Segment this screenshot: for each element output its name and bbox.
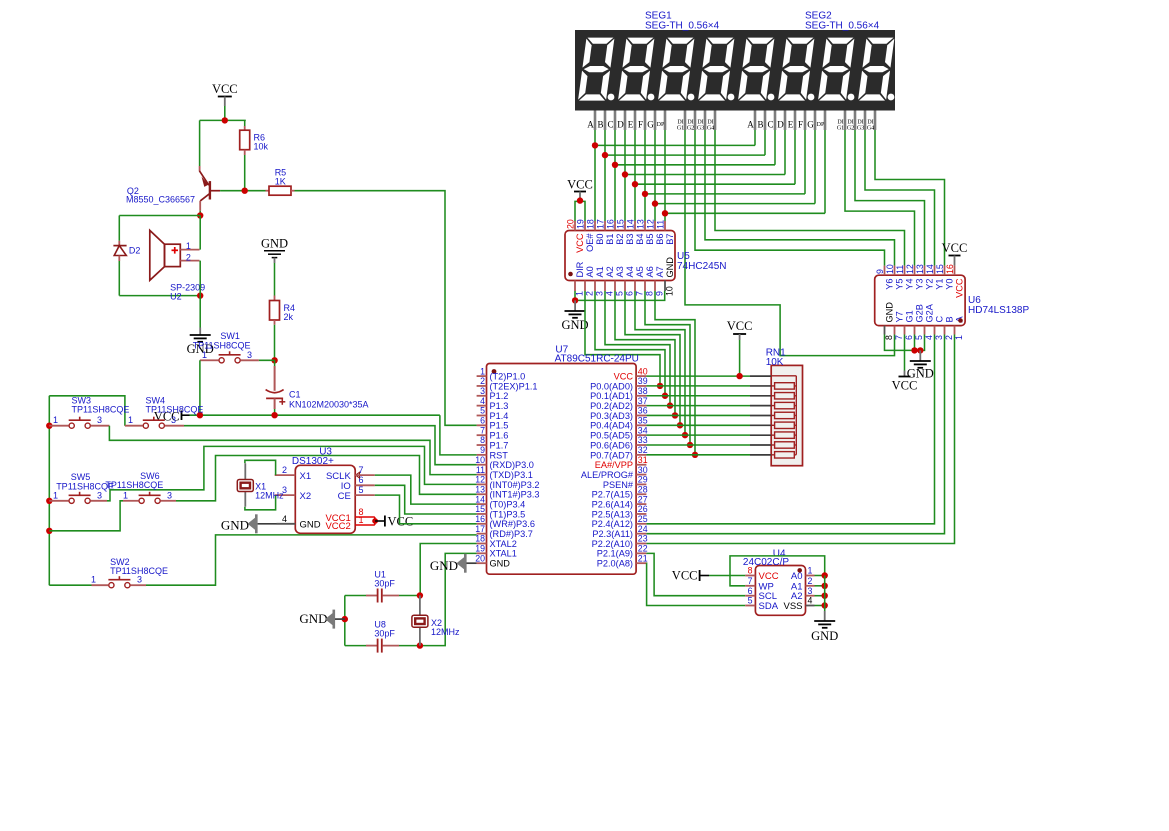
svg-text:CE: CE bbox=[338, 491, 351, 502]
C1 polarity plus bbox=[279, 401, 285, 403]
svg-text:P1.6: P1.6 bbox=[490, 431, 509, 441]
svg-text:(WR#)P3.6: (WR#)P3.6 bbox=[490, 519, 535, 529]
wire SEG1 DIG2 to U6 Y6 bbox=[695, 130, 885, 266]
svg-text:Y2: Y2 bbox=[924, 279, 934, 290]
wire Q2 collector node bbox=[199, 211, 201, 216]
svg-text:GND: GND bbox=[221, 518, 249, 533]
display pin stubs bbox=[594, 111, 597, 131]
svg-text:GND: GND bbox=[299, 611, 327, 626]
svg-text:16: 16 bbox=[475, 514, 485, 524]
svg-text:A4: A4 bbox=[625, 266, 635, 277]
svg-text:11: 11 bbox=[895, 265, 905, 274]
svg-text:P2.7(A15): P2.7(A15) bbox=[592, 490, 633, 500]
svg-text:22: 22 bbox=[638, 544, 648, 554]
svg-text:P0.1(AD1): P0.1(AD1) bbox=[590, 391, 633, 401]
svg-text:(RD#)P3.7: (RD#)P3.7 bbox=[490, 529, 533, 539]
svg-text:11: 11 bbox=[656, 220, 666, 229]
svg-text:2: 2 bbox=[808, 576, 813, 586]
svg-text:3: 3 bbox=[595, 291, 605, 296]
svg-text:4: 4 bbox=[808, 596, 813, 606]
svg-text:7: 7 bbox=[748, 576, 753, 586]
svg-text:VCC: VCC bbox=[954, 278, 964, 298]
IC U3 DS1302+ body bbox=[295, 465, 355, 533]
switch SW5 bbox=[69, 498, 74, 503]
svg-text:9: 9 bbox=[480, 445, 485, 455]
wire R6 bottom to base node bbox=[244, 150, 246, 155]
capacitor U8 30pF bbox=[345, 645, 366, 647]
svg-text:13: 13 bbox=[475, 484, 485, 494]
wire SW6 pin3 to MCU P3.3 bbox=[161, 500, 176, 502]
RN1 internal resistors and bus bbox=[771, 375, 796, 377]
svg-text:1: 1 bbox=[53, 415, 58, 425]
svg-text:5: 5 bbox=[914, 335, 924, 340]
svg-text:5: 5 bbox=[359, 485, 364, 495]
svg-text:X2: X2 bbox=[300, 491, 312, 502]
wire SW5 pin3 to MCU P3.2 bbox=[91, 500, 107, 502]
IC U7 AT89C51RC-24PU body bbox=[487, 364, 637, 575]
svg-text:7: 7 bbox=[480, 425, 485, 435]
svg-text:F: F bbox=[798, 120, 803, 130]
svg-text:2: 2 bbox=[585, 291, 595, 296]
svg-text:36: 36 bbox=[638, 406, 648, 416]
svg-text:B2: B2 bbox=[615, 234, 625, 245]
svg-text:Y5: Y5 bbox=[894, 279, 904, 290]
svg-text:A3: A3 bbox=[615, 266, 625, 277]
svg-text:1: 1 bbox=[128, 415, 133, 425]
svg-text:DIR: DIR bbox=[575, 261, 585, 277]
svg-text:1: 1 bbox=[91, 575, 96, 585]
svg-text:G1: G1 bbox=[904, 310, 914, 322]
speaker U2 SP-2309 bbox=[150, 230, 165, 280]
svg-text:(TXD)P3.1: (TXD)P3.1 bbox=[490, 470, 533, 480]
svg-text:G4: G4 bbox=[867, 126, 874, 132]
wire U6 B to MCU P2.4... actually P2.3 bbox=[646, 335, 944, 534]
wire SEG2 DIG2 to U6 Y2 bbox=[855, 130, 925, 266]
svg-text:P2.3(A11): P2.3(A11) bbox=[592, 529, 633, 539]
svg-text:P0.3(AD3): P0.3(AD3) bbox=[590, 411, 633, 421]
svg-text:15: 15 bbox=[935, 264, 945, 274]
IC U5 74HC245N body bbox=[565, 231, 675, 281]
svg-text:37: 37 bbox=[638, 396, 648, 406]
svg-text:(INT1#)P3.3: (INT1#)P3.3 bbox=[490, 490, 540, 500]
svg-text:GND: GND bbox=[300, 520, 321, 531]
svg-text:8: 8 bbox=[480, 435, 485, 445]
svg-text:Y0: Y0 bbox=[944, 279, 954, 290]
svg-text:25: 25 bbox=[638, 514, 648, 524]
svg-text:P2.0(A8): P2.0(A8) bbox=[597, 559, 633, 569]
svg-text:SW5: SW5 bbox=[71, 472, 91, 482]
svg-text:6: 6 bbox=[625, 291, 635, 296]
svg-text:1: 1 bbox=[808, 566, 813, 576]
svg-text:VCC: VCC bbox=[212, 82, 238, 96]
wire SEG1 DIG1 to U6 Y7 bbox=[685, 130, 895, 356]
svg-text:9: 9 bbox=[655, 291, 665, 296]
svg-text:32: 32 bbox=[638, 445, 648, 455]
transistor Q2 M8550 PNP bbox=[209, 181, 211, 199]
svg-text:(INT0#)P3.2: (INT0#)P3.2 bbox=[490, 480, 540, 490]
svg-text:16: 16 bbox=[945, 264, 955, 274]
wire U5 DIR+GND to ground bbox=[575, 291, 665, 300]
svg-text:VCC2: VCC2 bbox=[325, 521, 350, 532]
svg-text:2: 2 bbox=[944, 335, 954, 340]
svg-text:XTAL2: XTAL2 bbox=[490, 539, 517, 549]
svg-text:B6: B6 bbox=[655, 234, 665, 245]
svg-text:5: 5 bbox=[748, 596, 753, 606]
wire SEG2 DIG3 to U6 Y1 bbox=[865, 130, 935, 266]
svg-text:3: 3 bbox=[934, 335, 944, 340]
wire MCU XTAL1 to X2 bottom node bbox=[420, 553, 477, 645]
svg-text:3: 3 bbox=[808, 586, 813, 596]
svg-text:M8550_C366567: M8550_C366567 bbox=[126, 195, 195, 205]
U3 VCC1 VCC2 bracket to VCC flag bbox=[355, 516, 375, 518]
svg-text:(T2EX)P1.1: (T2EX)P1.1 bbox=[490, 381, 538, 391]
svg-text:21: 21 bbox=[638, 553, 648, 563]
wire Q2 base to R5 bbox=[220, 190, 265, 192]
U4 pin1 marker dot bbox=[797, 568, 802, 573]
svg-text:(T1)P3.5: (T1)P3.5 bbox=[490, 509, 526, 519]
wire rail to SW2 pin1 bbox=[49, 584, 91, 586]
svg-text:XTAL1: XTAL1 bbox=[490, 549, 517, 559]
svg-text:VCC: VCC bbox=[672, 569, 698, 583]
svg-text:G2: G2 bbox=[847, 126, 854, 132]
wire VCC rail to MCU RST bbox=[190, 414, 440, 416]
svg-text:SDA: SDA bbox=[759, 601, 779, 612]
svg-text:B5: B5 bbox=[645, 234, 655, 245]
svg-text:C: C bbox=[934, 316, 944, 323]
wire SEG1 DIG4 to U6 Y4 bbox=[715, 130, 905, 266]
svg-text:15: 15 bbox=[616, 219, 626, 229]
wire U3 CE to MCU P3.6 bbox=[375, 495, 477, 524]
7-seg display SEG1+SEG2 body bbox=[575, 30, 895, 111]
svg-text:24: 24 bbox=[638, 524, 648, 534]
svg-text:3: 3 bbox=[480, 386, 485, 396]
svg-text:VCC: VCC bbox=[575, 233, 585, 253]
U7 pin1 marker dot bbox=[492, 369, 497, 374]
svg-text:30: 30 bbox=[638, 465, 648, 475]
wire left common rail bbox=[49, 396, 125, 426]
U5 pin1 marker dot bbox=[568, 272, 573, 277]
svg-text:VSS: VSS bbox=[783, 601, 802, 612]
svg-text:1: 1 bbox=[575, 291, 585, 296]
wires MCU P0 rows to RN1 bbox=[646, 385, 750, 387]
svg-text:ALE/PROG#: ALE/PROG# bbox=[581, 470, 634, 480]
svg-text:G1: G1 bbox=[677, 126, 684, 132]
svg-text:18: 18 bbox=[475, 534, 485, 544]
svg-text:10k: 10k bbox=[254, 142, 269, 152]
svg-text:VCC: VCC bbox=[892, 379, 918, 393]
svg-text:5: 5 bbox=[615, 291, 625, 296]
ground below U4 bbox=[814, 620, 835, 622]
U3 pin stubs bbox=[275, 474, 296, 476]
svg-text:3: 3 bbox=[97, 415, 102, 425]
svg-text:19: 19 bbox=[576, 219, 586, 229]
svg-text:B: B bbox=[757, 120, 763, 130]
svg-text:SEG-TH_0.56×4: SEG-TH_0.56×4 bbox=[645, 21, 720, 32]
resistor R5 bbox=[269, 186, 291, 195]
svg-text:DP: DP bbox=[817, 122, 825, 128]
wire VCC to Q2 emitter bbox=[199, 120, 201, 166]
svg-text:2: 2 bbox=[282, 465, 287, 475]
svg-text:B7: B7 bbox=[665, 234, 675, 245]
svg-text:G3: G3 bbox=[857, 126, 864, 132]
svg-text:27: 27 bbox=[638, 494, 648, 504]
wire SW2 pin3 to MCU P3.7 bbox=[130, 584, 146, 586]
svg-text:TP11SH8CQE: TP11SH8CQE bbox=[146, 404, 204, 414]
svg-text:(T2)P1.0: (T2)P1.0 bbox=[490, 372, 526, 382]
wire U6 G1 to VCC flag bbox=[904, 335, 906, 371]
svg-text:1K: 1K bbox=[275, 177, 286, 187]
svg-text:VCC: VCC bbox=[727, 319, 753, 333]
svg-text:HD74LS138P: HD74LS138P bbox=[968, 305, 1029, 316]
svg-text:Y3: Y3 bbox=[914, 279, 924, 290]
svg-text:4: 4 bbox=[282, 514, 287, 524]
svg-text:8: 8 bbox=[884, 335, 894, 340]
wire U6 A to MCU P2.2 bbox=[646, 335, 954, 544]
svg-text:Y6: Y6 bbox=[884, 279, 894, 290]
capacitor U1 30pF bbox=[345, 595, 366, 597]
svg-text:U2: U2 bbox=[170, 292, 182, 302]
svg-text:35: 35 bbox=[638, 416, 648, 426]
svg-text:VCC: VCC bbox=[388, 514, 414, 528]
svg-text:C: C bbox=[607, 120, 613, 130]
svg-text:B1: B1 bbox=[605, 234, 615, 245]
svg-text:SEG-TH_0.56×4: SEG-TH_0.56×4 bbox=[805, 21, 880, 32]
svg-text:74HC245N: 74HC245N bbox=[677, 261, 726, 272]
svg-text:17: 17 bbox=[596, 219, 606, 229]
svg-text:10: 10 bbox=[475, 455, 485, 465]
svg-text:4: 4 bbox=[924, 335, 934, 340]
wire SEG2 A-DP columns bbox=[754, 130, 756, 145]
svg-text:Y4: Y4 bbox=[904, 279, 914, 290]
svg-text:G2: G2 bbox=[687, 126, 694, 132]
svg-text:14: 14 bbox=[475, 494, 485, 504]
wire caps left side to ground bbox=[344, 596, 346, 646]
wire SEG1 DIG3 to U6 Y5 bbox=[705, 130, 895, 266]
svg-text:VCC: VCC bbox=[614, 372, 634, 382]
IC U6 HD74LS138P body bbox=[875, 275, 965, 325]
wire SW6 pin1 to rail bbox=[123, 500, 139, 502]
wire segment bus SEG1-SEG2 horizontals bbox=[595, 144, 755, 146]
wire speaker pin1 riser bbox=[199, 216, 201, 250]
wire U6 GND G2A G2B to ground bbox=[885, 335, 925, 351]
svg-text:P0.6(AD6): P0.6(AD6) bbox=[590, 440, 633, 450]
wire GND to R4 bbox=[274, 263, 276, 296]
svg-text:P0.2(AD2): P0.2(AD2) bbox=[590, 401, 633, 411]
svg-text:D2: D2 bbox=[129, 246, 141, 256]
power flag VCC below U6 G1 bbox=[899, 376, 911, 378]
svg-text:VCC: VCC bbox=[567, 178, 593, 192]
svg-text:B: B bbox=[944, 316, 954, 322]
wire SEG1 A-DP columns down to U5 B pins bbox=[594, 130, 596, 221]
RN1 pin stubs bbox=[750, 375, 771, 377]
svg-text:Y1: Y1 bbox=[934, 279, 944, 290]
svg-text:10: 10 bbox=[665, 286, 675, 296]
svg-text:P2.5(A13): P2.5(A13) bbox=[592, 509, 633, 519]
svg-text:A0: A0 bbox=[585, 266, 595, 277]
svg-text:3: 3 bbox=[167, 490, 172, 500]
svg-text:3: 3 bbox=[97, 490, 102, 500]
svg-text:P1.5: P1.5 bbox=[490, 421, 509, 431]
svg-text:P1.7: P1.7 bbox=[490, 440, 509, 450]
ground below U5 bbox=[565, 310, 586, 312]
wire speaker pin2 down bbox=[199, 261, 201, 296]
wire VCC to U5 pins 20 and 19 bbox=[575, 201, 585, 221]
svg-text:14: 14 bbox=[626, 219, 636, 229]
svg-text:PSEN#: PSEN# bbox=[603, 480, 634, 490]
svg-text:1: 1 bbox=[186, 241, 191, 251]
capacitor C1 polarized bbox=[274, 360, 276, 366]
svg-text:6: 6 bbox=[748, 586, 753, 596]
switch SW1 bbox=[219, 358, 224, 363]
junction dots on P0 rows bbox=[657, 383, 663, 389]
svg-text:SW1: SW1 bbox=[220, 331, 240, 341]
svg-text:5: 5 bbox=[480, 406, 485, 416]
svg-text:12: 12 bbox=[475, 475, 485, 485]
svg-text:OE#: OE# bbox=[585, 233, 595, 252]
wire SW1 pin1 to VCC rail bbox=[211, 359, 219, 361]
svg-text:P0.0(AD0): P0.0(AD0) bbox=[590, 381, 633, 391]
svg-text:G3: G3 bbox=[697, 126, 704, 132]
U6 pin stubs top bbox=[884, 266, 886, 276]
wire VCC node horizontal bbox=[200, 119, 246, 121]
svg-text:28: 28 bbox=[638, 484, 648, 494]
U7 right pin stubs, numbers and names bbox=[636, 375, 646, 377]
svg-text:P2.6(A14): P2.6(A14) bbox=[592, 500, 633, 510]
svg-text:AT89C51RC-24PU: AT89C51RC-24PU bbox=[555, 354, 639, 365]
svg-text:TP11SH8CQE: TP11SH8CQE bbox=[72, 404, 130, 414]
crystal X1 12MHz bbox=[237, 480, 253, 492]
svg-text:RST: RST bbox=[490, 450, 509, 460]
svg-text:39: 39 bbox=[638, 376, 648, 386]
svg-text:4: 4 bbox=[605, 291, 615, 296]
svg-text:G2B: G2B bbox=[914, 304, 924, 322]
svg-text:B4: B4 bbox=[635, 234, 645, 245]
svg-text:6: 6 bbox=[480, 416, 485, 426]
svg-text:20: 20 bbox=[475, 553, 485, 563]
svg-text:D: D bbox=[617, 120, 624, 130]
wire MCU P2.1 to U4 SCL bbox=[646, 553, 745, 595]
crystal X2 body bbox=[412, 615, 428, 627]
wire SEG2 DIG4 to U6 Y0 bbox=[875, 130, 945, 266]
wires U5 A0-A7 staircase to MCU P0 bus bbox=[585, 291, 660, 386]
svg-text:G4: G4 bbox=[707, 126, 714, 132]
svg-text:A7: A7 bbox=[655, 266, 665, 277]
svg-text:14: 14 bbox=[925, 264, 935, 274]
svg-text:2: 2 bbox=[480, 376, 485, 386]
switch SW6 bbox=[139, 498, 144, 503]
svg-text:3: 3 bbox=[137, 575, 142, 585]
resistor network RN1 body bbox=[771, 365, 802, 465]
wire MCU P2.0 to U4 SDA bbox=[646, 563, 745, 605]
wire SW4 pin3 to MCU P3.0 bbox=[165, 425, 184, 427]
svg-text:A: A bbox=[587, 120, 594, 130]
svg-text:DS1302+: DS1302+ bbox=[292, 456, 334, 467]
svg-text:6: 6 bbox=[904, 335, 914, 340]
svg-text:B: B bbox=[597, 120, 603, 130]
svg-text:10: 10 bbox=[885, 264, 895, 274]
svg-text:1: 1 bbox=[202, 350, 207, 360]
svg-text:A1: A1 bbox=[595, 266, 605, 277]
svg-text:16: 16 bbox=[606, 219, 616, 229]
svg-text:13: 13 bbox=[636, 219, 646, 229]
svg-text:P2.1(A9): P2.1(A9) bbox=[597, 549, 633, 559]
svg-text:19: 19 bbox=[475, 544, 485, 554]
svg-text:C: C bbox=[767, 120, 773, 130]
resistor R6 bbox=[240, 130, 250, 150]
ground below U6 bbox=[910, 360, 931, 362]
resistor R4 bbox=[270, 301, 280, 321]
switch SW3 bbox=[69, 423, 74, 428]
svg-text:P1.3: P1.3 bbox=[490, 401, 509, 411]
IC U4 24C02C/P body bbox=[755, 566, 805, 616]
speaker polarity plus bbox=[172, 249, 179, 251]
U6 pin1 marker dot bbox=[958, 318, 963, 323]
svg-text:30pF: 30pF bbox=[374, 629, 395, 639]
svg-text:P0.4(AD4): P0.4(AD4) bbox=[590, 421, 633, 431]
svg-text:12: 12 bbox=[646, 219, 656, 229]
crystal X2 12MHz bbox=[419, 596, 421, 616]
crystal X1 wiring loop bbox=[245, 460, 276, 475]
svg-text:D: D bbox=[777, 120, 784, 130]
diode D2 bbox=[118, 216, 120, 241]
wire SW1 pin3 to RST node bbox=[241, 359, 259, 361]
svg-text:E: E bbox=[788, 120, 794, 130]
svg-text:13: 13 bbox=[915, 264, 925, 274]
wire R5 to MCU P1.5 bbox=[291, 190, 295, 192]
U3 clock arrow on SCLK bbox=[356, 472, 360, 478]
svg-text:GND: GND bbox=[811, 629, 838, 643]
switch SW2 bbox=[109, 583, 114, 588]
svg-text:(RXD)P3.0: (RXD)P3.0 bbox=[490, 460, 534, 470]
svg-text:GND: GND bbox=[490, 559, 511, 569]
svg-text:P0.5(AD5): P0.5(AD5) bbox=[590, 431, 633, 441]
svg-text:P1.4: P1.4 bbox=[490, 411, 509, 421]
svg-text:11: 11 bbox=[476, 465, 485, 475]
svg-text:GND: GND bbox=[261, 237, 288, 251]
svg-text:31: 31 bbox=[638, 455, 648, 465]
svg-text:4: 4 bbox=[480, 396, 485, 406]
svg-text:23: 23 bbox=[638, 534, 648, 544]
svg-text:DP: DP bbox=[657, 122, 665, 128]
svg-text:E: E bbox=[628, 120, 634, 130]
wire MCU XTAL2 to X2 top node bbox=[420, 544, 476, 596]
svg-text:12: 12 bbox=[905, 264, 915, 274]
svg-text:G: G bbox=[807, 120, 814, 130]
U4 left pin stubs and labels bbox=[745, 575, 755, 577]
wire MCU VCC pin40 to RN1 common bbox=[646, 375, 750, 377]
wire R4 bottom to RST node bbox=[274, 320, 276, 325]
svg-text:38: 38 bbox=[638, 386, 648, 396]
U4 right pin stubs and labels bbox=[806, 575, 815, 577]
U5 pin stubs bottom bbox=[574, 281, 576, 292]
svg-text:7: 7 bbox=[635, 291, 645, 296]
svg-text:A: A bbox=[747, 120, 754, 130]
svg-text:8: 8 bbox=[645, 291, 655, 296]
svg-text:20: 20 bbox=[566, 219, 576, 229]
U7 left pin stubs, numbers and names bbox=[477, 375, 487, 377]
wire VCC to R6 top bbox=[244, 120, 246, 126]
U5 pin stubs top bbox=[574, 221, 576, 231]
wire D2 bottom to speaker node bbox=[118, 261, 120, 296]
svg-text:9: 9 bbox=[875, 269, 885, 274]
svg-text:18: 18 bbox=[586, 219, 596, 229]
junction dots on SEG1 columns bbox=[592, 142, 598, 148]
svg-text:F: F bbox=[638, 120, 643, 130]
svg-text:GND: GND bbox=[884, 302, 894, 323]
U6 pin stubs bottom bbox=[884, 326, 886, 335]
svg-text:10K: 10K bbox=[766, 357, 784, 368]
svg-text:1: 1 bbox=[480, 366, 485, 376]
